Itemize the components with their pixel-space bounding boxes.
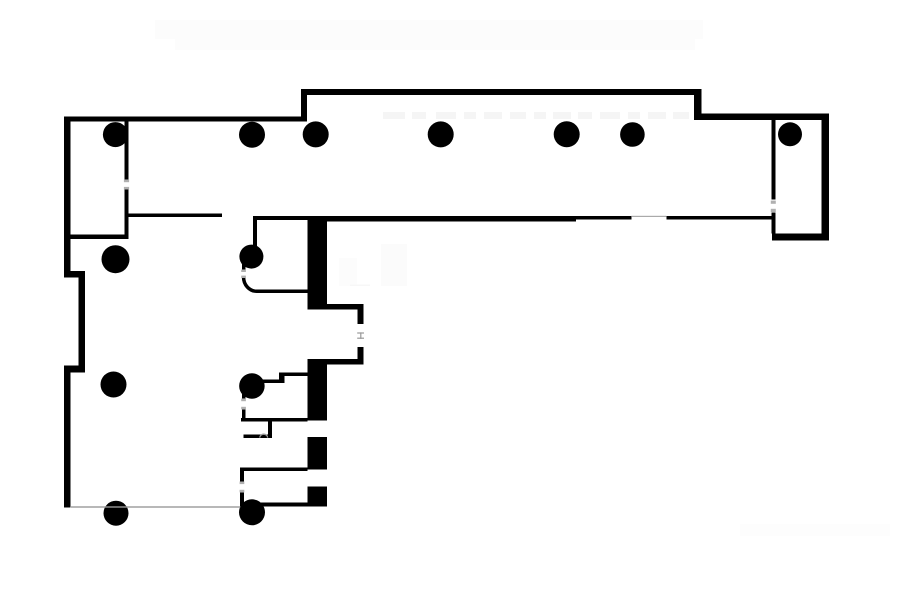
wall mid-room left lower [242, 410, 246, 422]
wall left outer lower [64, 366, 71, 508]
wall stub below column C9 [242, 262, 246, 270]
wall corridor south thin east of door [666, 216, 771, 219]
wall step up at x=301 [301, 89, 307, 122]
wall interior vertical lower (door jamb below) [125, 190, 129, 240]
wall left middle jutted [79, 271, 86, 373]
column C7 [778, 122, 802, 146]
wall arc below column C9 joining horizontal wall to band [244, 277, 308, 291]
wall thin horizontal left of corridor [129, 214, 223, 218]
wall top-left room bottom [71, 235, 129, 240]
door jamb ticks low room left wall [240, 482, 245, 485]
ghost text row 2 (faint dashes above top wall) [383, 112, 689, 119]
wall low room top [240, 467, 308, 471]
wall corridor south left of band [253, 216, 308, 220]
wall corridor south thin west of door [576, 216, 631, 219]
column C9 [239, 245, 263, 269]
wall right room left upper [771, 120, 775, 200]
wall left notch jog lower [64, 366, 85, 373]
wall tiny room top [241, 418, 308, 422]
column C4 [428, 121, 454, 147]
wall corridor south thick east of band [327, 216, 576, 222]
gray floor line bottom-left [71, 506, 240, 507]
wall right room bottom [772, 234, 829, 241]
door jamb ticks interior vertical wall [124, 180, 129, 183]
wall B horizontal over column [241, 380, 285, 384]
column C11 [239, 373, 265, 399]
wall top-middle raised [301, 89, 702, 95]
door jamb ticks mid-room left wall [241, 399, 246, 402]
column C8 [102, 245, 130, 273]
column C13 [239, 499, 265, 525]
wall step down at x=694 [694, 89, 702, 120]
wall tiny room bottom [244, 435, 272, 439]
door line across corridor opening [631, 216, 666, 217]
door swing arc tiny room [260, 434, 268, 437]
wall thick band upper [308, 216, 327, 310]
column C1 [103, 122, 128, 147]
wall thick band mid segment 2 [308, 437, 327, 470]
column C6 [620, 122, 645, 147]
wall left outer upper [64, 116, 71, 277]
wall tiny room right stub [268, 421, 272, 438]
wall thick band mid segment 1 [308, 359, 327, 421]
wall thick band bottom segment [308, 487, 327, 507]
wall passage right upper [358, 304, 364, 324]
column C5 [554, 121, 580, 147]
column C12 [104, 501, 129, 526]
door jamb ticks below column C9 [241, 270, 246, 272]
ghost text row 1 [155, 20, 703, 50]
wall right outer [822, 114, 830, 241]
wall top-right horizontal [694, 114, 829, 121]
wall low room left upper [240, 467, 244, 481]
wall A horizontal [285, 372, 308, 376]
wall interior vertical upper (door jamb above) [125, 121, 129, 180]
column C3 [303, 121, 329, 147]
ghost fixtures right of band [339, 258, 357, 286]
wall passage bottom [308, 359, 364, 365]
ghost text bottom right [740, 524, 890, 536]
wall passage right lower [358, 347, 364, 364]
wall vertical below corridor corner [253, 216, 257, 246]
wall mid-room left upper [242, 383, 246, 398]
wall low room left lower [240, 493, 244, 503]
door marker H passage right wall [357, 332, 364, 333]
door jamb ticks right room left wall [771, 201, 776, 204]
wall passage top [326, 304, 358, 310]
wall left notch jog upper [64, 271, 85, 278]
wall right room left lower [771, 213, 775, 234]
column C10 [101, 372, 127, 398]
column C2 [239, 122, 265, 148]
wall step between A and B [279, 372, 284, 383]
wall bottom of low room [240, 503, 326, 507]
wall top-left horizontal [65, 116, 307, 121]
